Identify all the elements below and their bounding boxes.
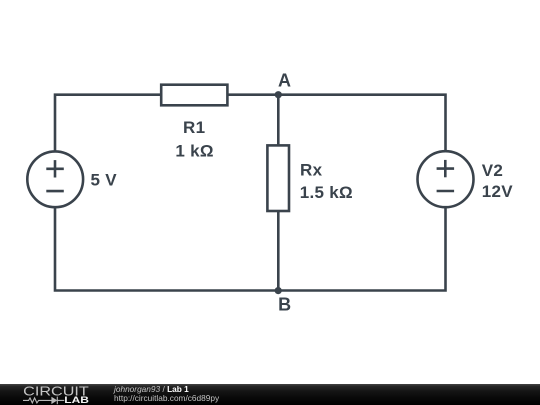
wire: R1 right to top-right corner [227,95,445,151]
svg-text:5 V: 5 V [91,171,118,190]
resistor R1 [161,85,227,106]
svg-text:V2: V2 [482,161,503,180]
svg-text:1 kΩ: 1 kΩ [175,141,213,160]
label Rx name [300,161,323,180]
voltage source V1 [27,151,83,207]
svg-text:1.5 kΩ: 1.5 kΩ [300,183,353,202]
wire: top-left segment from V1 top to R1 left [55,95,161,152]
footer credit line [114,385,189,393]
label R1 name [183,118,205,137]
label Rx value 1.5 kOhm [300,183,353,202]
node B label [278,294,291,314]
footer url line [114,394,219,402]
label V2 name [482,161,503,180]
svg-text:R1: R1 [183,118,205,137]
svg-text:B: B [278,294,291,314]
resistor Rx [267,145,289,211]
node A label [278,71,291,91]
label V2 value 12V [482,182,514,201]
node B junction dot [275,287,282,294]
label V1 value 5 V [91,171,118,190]
voltage source V2 [418,151,474,207]
label R1 value 1 kOhm [175,141,213,160]
wire: bottom rail node B to V2 bottom [278,207,445,291]
node A junction dot [275,91,282,98]
svg-text:A: A [278,71,291,91]
svg-text:LAB: LAB [64,395,89,405]
svg-text:12V: 12V [482,182,514,201]
wire: V1 bottom to bottom-left corner [55,207,278,290]
footer bar [0,384,540,405]
CircuitLab logo [0,384,110,405]
wire: node A down to Rx top [277,95,280,146]
svg-text:Rx: Rx [300,161,323,180]
wire: Rx bottom down to node B [277,211,280,291]
